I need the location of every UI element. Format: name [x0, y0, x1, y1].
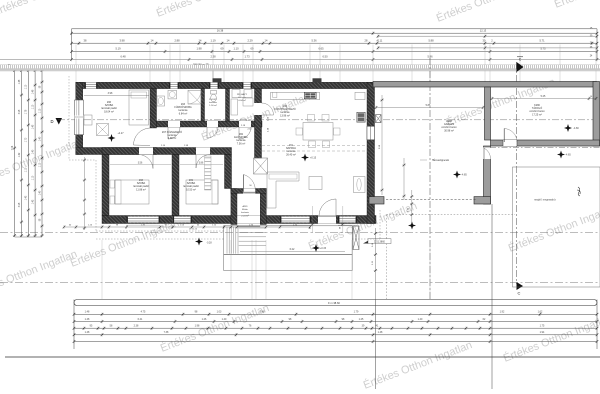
section line C vertical — [516, 62, 518, 284]
wall between hall and bedrooms (y148) — [102, 148, 232, 155]
light verticals building->dims — [101, 240, 103, 300]
bed room1 — [129, 90, 149, 125]
svg-text:1.40: 1.40 — [39, 190, 41, 195]
hazt box — [243, 98, 253, 106]
svg-text:1.19: 1.19 — [210, 38, 216, 42]
svg-text:1.03: 1.03 — [217, 311, 222, 314]
dim line inside room1 — [84, 95, 149, 97]
horizontal lot line 1 — [0, 232, 600, 234]
fence end flag C top — [517, 62, 524, 72]
svg-text:26 10.26: 26 10.26 — [189, 229, 198, 231]
svg-text:5.88: 5.88 — [428, 38, 434, 42]
svg-text:1.98: 1.98 — [195, 325, 200, 328]
washing machine — [168, 90, 177, 99]
bottom vertical extension lines — [375, 300, 377, 390]
left inner vertical dim — [84, 157, 86, 230]
svg-text:4.04 m²: 4.04 m² — [238, 99, 246, 102]
svg-text:-4.80: -4.80 — [573, 127, 579, 130]
section line at x=430 — [429, 58, 431, 300]
under-wall dim line — [64, 226, 310, 228]
svg-text:1.42: 1.42 — [19, 152, 21, 157]
storage door leaf+arc — [503, 129, 505, 143]
svg-text:-4.65: -4.65 — [565, 154, 571, 157]
svg-text:3.86: 3.86 — [199, 162, 204, 164]
svg-text:3.98: 3.98 — [108, 92, 113, 95]
svg-text:1.48: 1.48 — [85, 318, 90, 321]
svg-text:6.41: 6.41 — [138, 318, 143, 321]
top right cabinet — [355, 92, 365, 99]
svg-text:1.48: 1.48 — [19, 79, 21, 84]
section line D horizontal — [58, 119, 597, 121]
interior wall x226 — [226, 89, 230, 121]
bed room2 — [115, 180, 149, 204]
svg-text:1.40: 1.40 — [418, 318, 423, 321]
svg-text:1.48: 1.48 — [85, 311, 90, 314]
svg-text:2.88: 2.88 — [174, 38, 180, 42]
svg-text:1.98: 1.98 — [196, 47, 202, 51]
garage door dashed line — [386, 198, 477, 200]
svg-text:1.42: 1.42 — [33, 199, 35, 204]
svg-text:1.75: 1.75 — [540, 325, 545, 328]
dimension line top row E — [0, 59, 600, 61]
svg-text:16.38: 16.38 — [217, 29, 224, 33]
interior wall x201 — [201, 89, 205, 121]
eaves dotted outline — [68, 76, 70, 160]
window sills — [280, 224, 311, 226]
level star storage — [564, 124, 572, 132]
vestibule bottom edge — [237, 225, 260, 227]
left dimension lines — [14, 69, 16, 238]
bottom wall windows — [127, 217, 161, 223]
washbasin — [157, 96, 165, 106]
garage bottom wall right stub — [474, 197, 491, 204]
terrace post right (X column) — [353, 226, 359, 250]
svg-text:1.25: 1.25 — [359, 318, 364, 321]
garage interior dim — [376, 107, 483, 109]
svg-text:6.50: 6.50 — [322, 55, 328, 59]
svg-text:-0.28: -0.28 — [206, 243, 212, 245]
garage bottom wall left stub — [369, 197, 384, 204]
bottom dim row 1 — [74, 313, 597, 315]
vestibule top wall with entry door — [231, 189, 266, 194]
svg-text:1.48: 1.48 — [33, 89, 35, 94]
svg-text:18.04 m²: 18.04 m² — [104, 110, 114, 113]
bottom wall — [102, 216, 376, 224]
garage rear door gap — [483, 148, 491, 160]
svg-text:7.56 m²: 7.56 m² — [237, 142, 246, 145]
svg-text:1.10: 1.10 — [233, 47, 239, 51]
svg-text:+0.33: +0.33 — [320, 247, 327, 250]
wall under room1 (y148) — [76, 148, 157, 155]
svg-text:1.94: 1.94 — [540, 331, 545, 334]
dimension rows right extension — [378, 35, 597, 37]
rear bird symbol — [577, 187, 580, 196]
chimney block 1 — [213, 78, 222, 82]
svg-text:4.75: 4.75 — [141, 311, 146, 314]
vestibule steps — [239, 227, 266, 229]
garage inner dim — [403, 158, 405, 200]
driveway dotted edge — [386, 214, 515, 216]
laundry machines — [232, 90, 240, 98]
interior doors arcs — [139, 155, 153, 169]
fence comb band — [0, 65, 600, 71]
svg-text:1.45: 1.45 — [33, 124, 35, 129]
svg-text:6.84 m²: 6.84 m² — [179, 112, 188, 115]
svg-text:1.10: 1.10 — [33, 104, 35, 109]
storage door opening in bottom wall — [503, 140, 517, 146]
door gaps in y148 wall — [139, 148, 153, 155]
garage left inner vertical dim — [381, 95, 383, 195]
sink grid — [304, 92, 317, 99]
dimension line top row C — [72, 42, 598, 44]
svg-text:1.10: 1.10 — [33, 175, 35, 180]
bedroom divider wall — [172, 155, 179, 216]
horizontal lot line 2 — [0, 282, 600, 284]
bedroom2 dim — [110, 164, 171, 166]
svg-text:1.78: 1.78 — [26, 109, 28, 114]
bottom dim row 5 — [74, 341, 597, 343]
bed room3 — [186, 180, 218, 204]
dimension line top row D — [72, 51, 598, 53]
interior wall x255 upper — [255, 89, 262, 158]
svg-text:9.98 m²: 9.98 m² — [168, 137, 177, 140]
svg-text:1.48: 1.48 — [85, 331, 90, 334]
svg-text:3.56: 3.56 — [138, 162, 143, 164]
shower cabin — [188, 90, 201, 104]
svg-text:2.24 m²: 2.24 m² — [241, 214, 249, 217]
table with X room1 — [97, 124, 109, 136]
open plan dashed ceiling lines — [262, 145, 367, 147]
storage bottom wall — [491, 140, 600, 146]
svg-text:6.22: 6.22 — [290, 248, 295, 251]
svg-text:2.48: 2.48 — [260, 311, 265, 314]
svg-text:1.73: 1.73 — [26, 137, 28, 142]
toilet — [211, 91, 217, 95]
garage area sum box — [368, 239, 391, 244]
svg-text:1.10: 1.10 — [39, 108, 41, 113]
bottom long base line — [5, 356, 600, 358]
terrace outline — [224, 226, 353, 255]
right vertical dim of house — [375, 228, 377, 300]
interior wall room1/bath — [150, 89, 157, 128]
svg-text:10.50 m²: 10.50 m² — [186, 188, 196, 191]
left dim ticks — [13, 69, 16, 72]
sofa — [267, 172, 299, 208]
svg-text:5.36: 5.36 — [311, 38, 317, 42]
house left wall — [76, 82, 83, 154]
svg-text:3.98: 3.98 — [119, 38, 125, 42]
svg-text:1.10: 1.10 — [26, 84, 28, 89]
svg-text:3.98: 3.98 — [19, 202, 21, 207]
svg-text:1.48: 1.48 — [378, 331, 383, 334]
door gap kitchen — [254, 103, 262, 115]
svg-text:2.29: 2.29 — [247, 38, 253, 42]
garage top wall — [373, 82, 597, 88]
svg-text:17.25 m²: 17.25 m² — [532, 113, 542, 116]
terrace steps left — [226, 227, 228, 254]
fridge column — [357, 112, 366, 123]
svg-text:D: D — [50, 119, 53, 124]
D section marker — [56, 118, 63, 125]
rear terrace dotted rect — [513, 167, 600, 287]
terrace door arc — [319, 199, 336, 216]
vestibule cutout in bottom wall — [237, 216, 260, 224]
left wall lower row — [102, 155, 109, 216]
level star -0.28 — [195, 238, 203, 246]
svg-text:3.98: 3.98 — [19, 109, 21, 114]
svg-text:kerámia: kerámia — [241, 211, 250, 214]
svg-text:+4.27: +4.27 — [117, 132, 124, 135]
window dim verticals — [312, 206, 314, 233]
svg-text:1.42: 1.42 — [26, 195, 28, 200]
left wall window — [75, 100, 84, 135]
svg-text:1.40: 1.40 — [39, 136, 41, 141]
coffee table — [309, 177, 322, 190]
svg-text:1.40: 1.40 — [222, 318, 227, 321]
chimney block 2 — [313, 78, 322, 82]
svg-text:26.40 m²: 26.40 m² — [286, 153, 296, 156]
svg-text:5.86: 5.86 — [427, 55, 433, 59]
garage front dim vertical — [411, 190, 413, 227]
svg-text:Σ m 38.60: Σ m 38.60 — [328, 301, 340, 305]
svg-text:megbíf. megnszab.b: megbíf. megnszab.b — [534, 199, 556, 202]
terrace door opening — [318, 216, 336, 224]
top dim connector verticals — [71, 29, 73, 60]
door gaps in y121 wall — [168, 121, 180, 127]
svg-text:6.65: 6.65 — [318, 47, 324, 51]
entry door leaf+arc — [243, 175, 245, 192]
svg-text:2.38: 2.38 — [134, 325, 139, 328]
right wall window to garage — [367, 126, 375, 140]
vestibule right wall — [260, 189, 266, 225]
svg-text:A281: A281 — [242, 205, 248, 208]
svg-text:5.71: 5.71 — [539, 38, 545, 42]
gardrob wall — [225, 155, 232, 189]
boiler symbol — [376, 115, 382, 123]
hazt tall cupboard — [231, 99, 238, 115]
bedroom3 dim — [180, 164, 223, 166]
garage right wall lower — [484, 146, 491, 204]
svg-text:5.19: 5.19 — [115, 47, 121, 51]
dashdot below storage — [490, 147, 600, 149]
kitchen counter — [271, 92, 320, 99]
wardrobe with X — [254, 158, 268, 174]
garage right wall — [593, 82, 600, 147]
svg-text:6.48: 6.48 — [120, 55, 126, 59]
bottom dim row 3 — [74, 327, 597, 329]
bottom dim row 4 — [74, 334, 597, 336]
svg-text:5.75: 5.75 — [540, 47, 546, 51]
svg-text:295 HÁZT.: 295 HÁZT. — [237, 93, 248, 96]
svg-text:-4.85: -4.85 — [461, 174, 467, 177]
svg-text:1.26: 1.26 — [202, 318, 207, 321]
house top wall — [76, 82, 373, 88]
dining table — [303, 123, 333, 141]
svg-text:1.73: 1.73 — [244, 55, 250, 59]
svg-text:1.40: 1.40 — [33, 149, 35, 154]
interior wall bath row bottom (y121) — [157, 121, 263, 127]
house right wall — [367, 82, 375, 223]
svg-text:11.88 m²: 11.88 m² — [136, 188, 146, 191]
svg-text:7.04: 7.04 — [12, 145, 14, 150]
svg-text:12.13: 12.13 — [480, 29, 487, 33]
extension guide lines from top dims to building — [75, 45, 77, 83]
svg-text:13.96 m²: 13.96 m² — [280, 114, 290, 117]
star at drive — [408, 222, 416, 230]
gardrob shelves — [205, 156, 212, 190]
wardrobe room1 — [84, 115, 92, 125]
svg-text:1.79: 1.79 — [354, 311, 359, 314]
svg-text:2.38: 2.38 — [210, 55, 216, 59]
bottom pill outline — [74, 300, 597, 306]
tv board — [354, 177, 366, 193]
section line C bottom flag — [517, 282, 524, 290]
svg-text:HÉA aszignendo: HÉA aszignendo — [432, 159, 450, 162]
svg-text:1.10: 1.10 — [39, 162, 41, 167]
dimension line top row B (16.38 / 12.13) — [72, 32, 598, 34]
terrace mid dim — [240, 251, 345, 253]
svg-text:30.98 m²: 30.98 m² — [444, 129, 454, 132]
svg-text:5.25: 5.25 — [541, 95, 546, 98]
svg-text:+0.15: +0.15 — [310, 157, 317, 160]
svg-text:Előtér: Előtér — [242, 208, 248, 211]
vestibule left wall — [231, 189, 237, 225]
svg-text:1.62: 1.62 — [538, 311, 543, 314]
garage/storage divider wall — [485, 87, 491, 140]
svg-text:1.10: 1.10 — [26, 167, 28, 172]
svg-text:5.86: 5.86 — [426, 104, 431, 107]
bottom dim row 2 — [74, 321, 597, 323]
dimension line top row A — [72, 28, 598, 30]
svg-text:C: C — [518, 291, 521, 296]
svg-text:1.92: 1.92 — [500, 311, 505, 314]
svg-text:7.38: 7.38 — [164, 331, 169, 334]
storage interior dim — [492, 98, 596, 100]
svg-text:Σ 51.3860: Σ 51.3860 — [374, 241, 385, 244]
svg-text:1.50 m²: 1.50 m² — [209, 104, 217, 107]
house top wall windows — [85, 82, 98, 88]
